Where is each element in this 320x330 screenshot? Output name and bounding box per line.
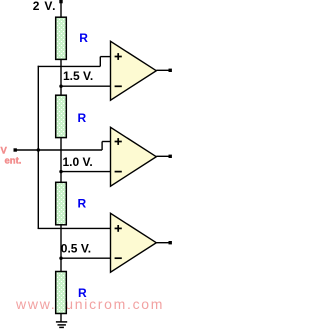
svg-text:R: R — [78, 111, 87, 125]
ground — [56, 322, 67, 328]
wire tap1 1.5V to U1 - pin — [61, 85, 111, 87]
resistor R2 — [56, 95, 67, 137]
op-amp U1 — [111, 41, 157, 100]
op-amp U2 — [111, 127, 157, 186]
wire Vent horizontal — [16, 149, 102, 151]
node Vent input label — [1, 146, 22, 167]
wire bus to U1 + jog (horizontal) — [38, 65, 101, 67]
junction tap3 — [59, 257, 62, 260]
svg-text:1.0 V.: 1.0 V. — [63, 155, 93, 169]
resistor R1 — [56, 17, 67, 59]
U2 inverting input marker - — [115, 171, 122, 173]
U3 noninverting input marker + — [115, 225, 122, 232]
wire bus to U3 + pin — [38, 227, 111, 229]
terminal U1 output — [169, 69, 172, 72]
wire R2 to R3 (ladder) — [60, 138, 62, 183]
U1 noninverting input marker + — [115, 53, 122, 60]
U1 inverting input marker - — [115, 85, 122, 87]
resistor R4 — [56, 272, 67, 314]
svg-text:2 V.: 2 V. — [33, 0, 56, 13]
svg-text:www.: www. — [15, 296, 56, 312]
svg-text:0.5 V.: 0.5 V. — [61, 241, 91, 255]
svg-text:R: R — [78, 286, 87, 300]
op-amp U3 — [111, 213, 157, 272]
svg-text:1.5 V.: 1.5 V. — [63, 69, 93, 83]
svg-text:R: R — [78, 197, 87, 211]
junction tap1 — [59, 85, 62, 88]
wire Vent bus (left vertical) — [37, 66, 39, 229]
wire U2 + jog vertical — [101, 142, 103, 151]
wire U2 output — [156, 155, 169, 157]
svg-text:R: R — [79, 31, 88, 45]
terminal U3 output — [169, 241, 172, 244]
wire U3 output — [156, 242, 169, 244]
wire tap2 1.0V to U2 - pin — [61, 171, 111, 173]
wire into U2 + pin — [102, 141, 111, 143]
wire R3 to R4 (ladder) — [60, 225, 62, 272]
wire supply to R1 — [60, 2, 62, 17]
U2 noninverting input marker + — [115, 138, 122, 145]
wire U1 output — [156, 69, 169, 71]
resistor R3 — [56, 182, 67, 225]
svg-text:ent.: ent. — [5, 155, 22, 166]
wire R1 to R2 (ladder) — [60, 59, 62, 95]
terminal Vent input — [14, 148, 17, 151]
terminal U2 output — [169, 155, 172, 158]
wire R4 to ground — [60, 314, 62, 322]
wire tap3 0.5V to U3 - pin — [61, 257, 111, 259]
junction tap2 — [59, 170, 62, 173]
wire into U1 + pin — [100, 56, 111, 58]
junction Vent-bus — [37, 148, 40, 151]
terminal 2V supply — [59, 0, 62, 3]
wire U1 + jog vertical — [99, 57, 101, 67]
U3 inverting input marker - — [115, 257, 122, 259]
